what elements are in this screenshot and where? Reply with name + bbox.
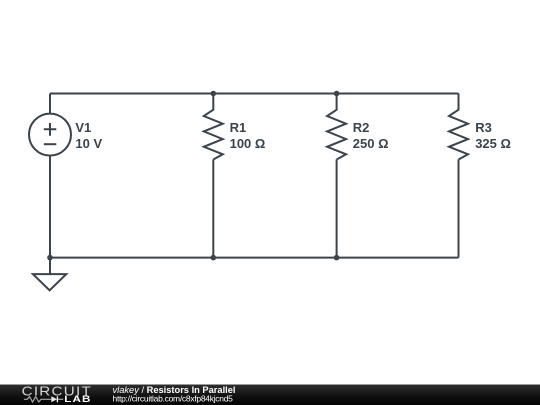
logo diode xyxy=(51,396,63,402)
logo resistor zigzag xyxy=(24,397,51,402)
wire R1 bottom lead xyxy=(212,160,214,258)
svg-text:LAB: LAB xyxy=(64,395,91,404)
svg-text:325 Ω: 325 Ω xyxy=(475,136,511,151)
resistor R3 xyxy=(449,94,468,160)
resistor R1 xyxy=(204,94,223,160)
svg-text:10 V: 10 V xyxy=(75,136,102,151)
wire bottom bus xyxy=(50,257,459,259)
resistor R2 xyxy=(327,94,346,160)
ground xyxy=(33,274,66,290)
logo CircuitLab wordmark xyxy=(22,384,92,399)
svg-text:R3: R3 xyxy=(475,120,492,135)
node junction top R2 xyxy=(334,91,340,97)
footer bar xyxy=(0,384,540,405)
svg-text:R1: R1 xyxy=(230,120,247,135)
svg-text:250 Ω: 250 Ω xyxy=(353,136,389,151)
wire R3 bottom lead xyxy=(458,160,460,258)
node junction bottom V1/ground xyxy=(47,255,53,261)
svg-text:100 Ω: 100 Ω xyxy=(230,136,266,151)
svg-text:V1: V1 xyxy=(75,120,91,135)
wire R2 bottom lead xyxy=(336,160,338,258)
svg-text:http://circuitlab.com/c8xfp84k: http://circuitlab.com/c8xfp84kjcnd5 xyxy=(113,393,234,403)
node junction bottom R2 xyxy=(334,255,340,261)
node junction bottom R1 xyxy=(211,255,217,261)
wire V1 top lead xyxy=(49,94,51,114)
voltage source V1 xyxy=(29,114,71,156)
wire V1 bottom lead xyxy=(49,156,51,258)
wire top bus xyxy=(50,93,459,95)
svg-text:R2: R2 xyxy=(353,120,370,135)
node junction top R1 xyxy=(211,91,217,97)
wire ground stub xyxy=(49,258,51,275)
